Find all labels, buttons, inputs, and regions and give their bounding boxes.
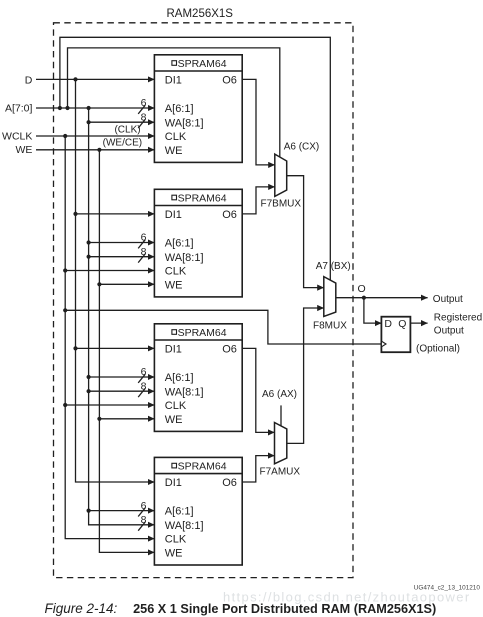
svg-text:6: 6 <box>141 500 147 512</box>
bus width slash 6 on U4 A <box>138 508 145 517</box>
wire D branch to U2 DI1 <box>76 213 155 215</box>
bus width slash 6 on U2 A <box>138 240 145 249</box>
wire A vertical bus to U4 WA[8:1] <box>89 108 155 525</box>
multiplexer F8MUX <box>324 277 336 317</box>
wire D branch to U3 DI1 <box>76 347 155 349</box>
svg-text:8: 8 <box>141 111 147 123</box>
wire F8MUX output O to Output <box>336 297 428 299</box>
svg-text:F8MUX: F8MUX <box>313 321 347 332</box>
svg-text:SPRAM64: SPRAM64 <box>178 58 227 70</box>
svg-text:(WE/CE): (WE/CE) <box>103 137 142 148</box>
svg-text:(CLK): (CLK) <box>114 124 140 135</box>
svg-text:D: D <box>384 318 392 330</box>
svg-text:O6: O6 <box>222 344 237 356</box>
junction A6 tap on A[7:0] <box>65 106 69 110</box>
SPRAM64 block U1 <box>154 55 242 163</box>
junction node O <box>362 296 366 300</box>
junction WCLK at FF clock tap <box>63 308 67 312</box>
wire WE vertical bus to U4 WE <box>99 150 154 553</box>
svg-text:CLK: CLK <box>165 534 187 546</box>
junction A at U3 WA <box>87 389 91 393</box>
flip-flop D register <box>381 317 410 353</box>
junction A at U2 WA <box>87 255 91 259</box>
wire WE branch to U2 WE <box>99 283 154 285</box>
wire WCLK branch to FF clock <box>65 310 381 344</box>
svg-text:6: 6 <box>141 366 147 378</box>
SPRAM64 block U2 <box>154 189 242 297</box>
svg-text:D: D <box>25 75 33 87</box>
junction A at U2 A <box>87 240 91 244</box>
svg-text:CLK: CLK <box>165 400 187 412</box>
wire WCLK branch to U2 CLK <box>65 270 154 272</box>
junction A at U3 A <box>87 375 91 379</box>
wire A7 select wrap to F8MUX <box>60 37 330 280</box>
junction D at U1 DI1 line <box>73 77 77 81</box>
wire WCLK branch to U3 CLK <box>65 404 154 406</box>
svg-text:WE: WE <box>165 279 183 291</box>
wire A branch to U2 WA[8:1] <box>89 256 155 258</box>
bus width slash 8 on U2 WA <box>138 254 145 263</box>
bus width slash 8 on U1 WA <box>138 119 145 128</box>
wire A branch to U3 WA[8:1] <box>89 390 155 392</box>
junction D at U2 DI1 <box>73 212 77 216</box>
wire FF Q to Registered Output <box>410 322 427 324</box>
junction A bus at U1 WA tap <box>87 120 91 124</box>
SPRAM64 block U3 <box>154 324 242 432</box>
wire A[7:0] input to U1 A[6:1] <box>36 107 154 109</box>
junction WCLK at U1 CLK line <box>63 134 67 138</box>
wire A branch to U4 A[6:1] <box>89 510 155 512</box>
svg-text:Output: Output <box>434 325 464 336</box>
svg-text:A6 (AX): A6 (AX) <box>262 389 297 400</box>
wire U2 O6 to F7BMUX in1 <box>242 187 275 214</box>
bus width slash 6 on U3 A <box>138 374 145 383</box>
svg-text:8: 8 <box>141 514 147 526</box>
svg-text:O6: O6 <box>222 477 237 489</box>
wire WCLK vertical bus to U4 CLK <box>65 136 154 539</box>
svg-text:A6 (CX): A6 (CX) <box>284 141 320 152</box>
svg-text:A7 (BX): A7 (BX) <box>316 261 351 272</box>
svg-text:WA[8:1]: WA[8:1] <box>165 117 204 129</box>
wire node O to FF D input <box>364 298 382 323</box>
SPRAM64 block U4 <box>154 457 242 565</box>
svg-text:WA[8:1]: WA[8:1] <box>165 520 204 532</box>
wire U3 O6 to F7AMUX in0 <box>242 348 274 432</box>
wire A branch to U2 A[6:1] <box>89 242 155 244</box>
svg-text:(Optional): (Optional) <box>416 343 460 354</box>
junction WE at U2 WE <box>97 282 101 286</box>
wire WCLK input to U1 CLK <box>36 135 154 137</box>
svg-text:SPRAM64: SPRAM64 <box>178 327 227 339</box>
svg-text:WCLK: WCLK <box>2 130 32 142</box>
svg-text:SPRAM64: SPRAM64 <box>178 193 227 205</box>
svg-text:256 X 1 Single Port Distribute: 256 X 1 Single Port Distributed RAM (RAM… <box>133 602 436 616</box>
wire A6 select wrap to F7BMUX <box>68 48 280 157</box>
svg-text:DI1: DI1 <box>165 75 182 87</box>
bus width slash 6 on U1 A <box>138 105 145 114</box>
junction WCLK at U2 CLK <box>63 268 67 272</box>
svg-text:RAM256X1S: RAM256X1S <box>167 8 234 20</box>
svg-text:A[6:1]: A[6:1] <box>165 103 194 115</box>
svg-text:6: 6 <box>141 97 147 109</box>
wire WA tap to U1 WA[8:1] <box>89 121 155 123</box>
svg-text:Output: Output <box>433 294 463 305</box>
svg-text:A[6:1]: A[6:1] <box>165 372 194 384</box>
junction D at U3 DI1 <box>73 346 77 350</box>
svg-text:CLK: CLK <box>165 131 187 143</box>
multiplexer F7BMUX <box>275 154 287 196</box>
wire U4 O6 to F7AMUX in1 <box>242 456 274 482</box>
svg-text:Figure 2-14:: Figure 2-14: <box>45 601 118 616</box>
svg-text:WE: WE <box>165 548 183 560</box>
junction A bus at A[7:0] line <box>87 106 91 110</box>
svg-text:WE: WE <box>165 414 183 426</box>
wire D input to U1 DI1 <box>36 78 154 80</box>
svg-text:SPRAM64: SPRAM64 <box>178 461 227 473</box>
bus width slash 8 on U3 WA <box>138 388 145 397</box>
wire F7BMUX out to F8MUX in0 <box>287 176 324 288</box>
svg-text:O: O <box>358 283 366 295</box>
dashed boundary box RAM256X1S <box>54 23 354 578</box>
svg-text:F7BMUX: F7BMUX <box>261 199 302 210</box>
svg-text:DI1: DI1 <box>165 344 182 356</box>
svg-text:CLK: CLK <box>165 266 187 278</box>
svg-text:Registered: Registered <box>434 312 482 323</box>
wire A6 select stub to F7AMUX <box>280 405 282 426</box>
svg-text:6: 6 <box>141 232 147 244</box>
svg-text:DI1: DI1 <box>165 209 182 221</box>
svg-text:A[6:1]: A[6:1] <box>165 506 194 518</box>
svg-text:O6: O6 <box>222 75 237 87</box>
svg-text:WA[8:1]: WA[8:1] <box>165 386 204 398</box>
bus width slash 8 on U4 WA <box>138 522 145 531</box>
svg-text:DI1: DI1 <box>165 477 182 489</box>
svg-text:F7AMUX: F7AMUX <box>260 467 301 478</box>
svg-text:A[6:1]: A[6:1] <box>165 238 194 250</box>
svg-text:WE: WE <box>15 144 32 156</box>
wire WE input to U1 WE <box>36 149 154 151</box>
wire WE branch to U3 WE <box>99 418 154 420</box>
svg-text:8: 8 <box>141 380 147 392</box>
junction A7 tap on A[7:0] <box>58 106 62 110</box>
junction WE at U1 WE line <box>97 148 101 152</box>
svg-text:8: 8 <box>141 246 147 258</box>
wire D vertical bus to U4 DI1 <box>76 79 155 482</box>
junction A at U4 A <box>87 509 91 513</box>
junction WE at U3 WE <box>97 417 101 421</box>
svg-text:WA[8:1]: WA[8:1] <box>165 252 204 264</box>
svg-text:O6: O6 <box>222 209 237 221</box>
wire A branch to U3 A[6:1] <box>89 376 155 378</box>
wire F7AMUX out to F8MUX in1 <box>287 308 324 443</box>
multiplexer F7AMUX <box>275 423 287 464</box>
wire U1 O6 to F7BMUX in0 <box>242 79 275 164</box>
junction WCLK at U3 CLK <box>63 403 67 407</box>
svg-text:WE: WE <box>165 145 183 157</box>
svg-text:Q: Q <box>398 318 406 330</box>
svg-text:A[7:0]: A[7:0] <box>5 103 33 115</box>
